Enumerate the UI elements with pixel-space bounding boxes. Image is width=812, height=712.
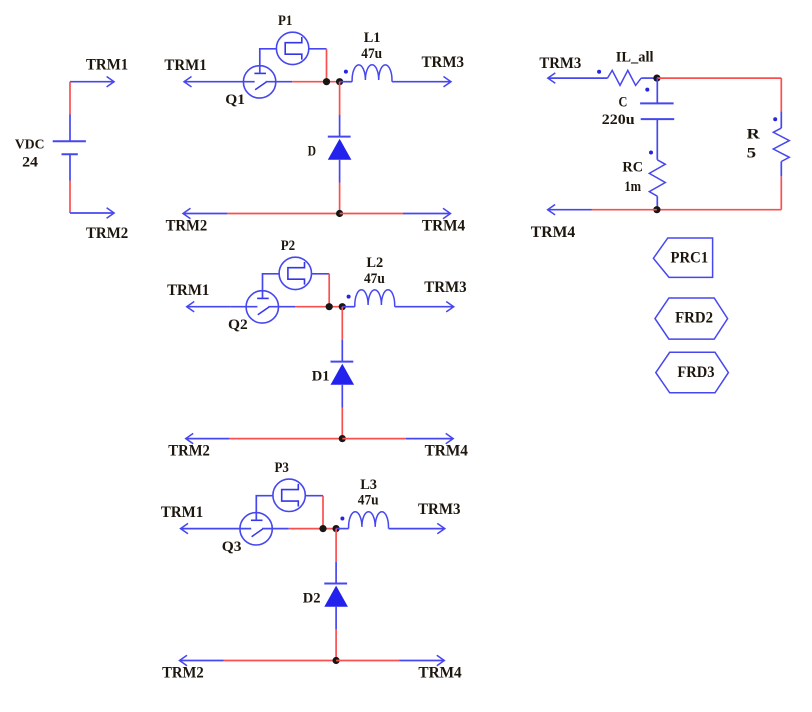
- inductor L1 coils: [352, 65, 392, 82]
- diode D1 lead top: [341, 340, 343, 362]
- wire bottom rail right cell1: [340, 213, 403, 215]
- terminal TRM4 arrow (output): [548, 209, 592, 211]
- svg-text:L2: L2: [366, 255, 383, 271]
- inductor L3 marker dot: [340, 517, 344, 521]
- terminal TRM3 arrow cell1: [392, 81, 451, 83]
- wire node to diode D2: [335, 529, 337, 562]
- wire VDC+ to TRM1: [69, 82, 71, 115]
- resistor R lead bottom: [780, 162, 782, 177]
- svg-text:TRM4: TRM4: [418, 665, 461, 682]
- wire P1 down to node: [326, 49, 328, 82]
- svg-text:TRM4: TRM4: [425, 443, 468, 460]
- junction node A cell2: [326, 303, 333, 310]
- svg-text:47u: 47u: [358, 493, 379, 509]
- junction node bottom (output): [653, 206, 660, 213]
- gating block P3 right lead: [305, 495, 323, 497]
- diode D lead top: [339, 115, 341, 137]
- resistor RC lead bottom: [656, 196, 658, 210]
- svg-text:FRD2: FRD2: [675, 310, 713, 327]
- inductor L3 coils: [349, 512, 389, 529]
- switch Q1 blade: [255, 82, 266, 90]
- svg-text:24: 24: [22, 155, 39, 171]
- terminal TRM3 arrow cell2: [395, 306, 454, 308]
- svg-text:TRM4: TRM4: [422, 218, 465, 235]
- wire P3 down to node: [322, 496, 324, 529]
- gating block P2 circle: [279, 257, 311, 289]
- svg-text:Q2: Q2: [228, 317, 248, 333]
- wire bottom rail right cell3: [336, 660, 399, 662]
- diode D lead bottom: [339, 160, 341, 183]
- wire bottom rail left cell1: [227, 213, 340, 215]
- resistor RC zigzag: [649, 160, 665, 196]
- svg-text:47u: 47u: [361, 46, 382, 62]
- terminal TRM1 arrow cell1: [184, 81, 228, 83]
- svg-text:TRM3: TRM3: [422, 54, 465, 71]
- resistor R lead top: [780, 111, 782, 128]
- diode D1 cathode bar: [331, 361, 354, 363]
- svg-text:Q3: Q3: [222, 539, 242, 555]
- block FRD3 outline: [656, 352, 729, 393]
- resistor R marker dot: [773, 117, 777, 121]
- wire node to diode D: [339, 82, 341, 115]
- svg-text:220u: 220u: [602, 112, 635, 128]
- wire bottom rail (output): [657, 209, 781, 211]
- switch Q2 right lead: [268, 306, 295, 308]
- junction node B cell1: [336, 78, 343, 85]
- capacitor C plate bottom: [641, 118, 675, 120]
- wire TRM1 to switch Q3: [225, 528, 252, 530]
- svg-text:1m: 1m: [624, 179, 641, 195]
- svg-text:FRD3: FRD3: [677, 364, 714, 381]
- svg-text:TRM3: TRM3: [418, 501, 461, 518]
- svg-text:L3: L3: [360, 477, 377, 493]
- wire bottom rail to TRM4 (output): [592, 209, 657, 211]
- voltage source VDC plate-: [62, 153, 78, 155]
- switch Q1 gate bar: [254, 72, 266, 74]
- wire gate Q3 to P3: [256, 496, 273, 521]
- diode D triangle: [328, 139, 352, 160]
- wire diode D to bottom rail: [339, 183, 341, 214]
- wire C to RC: [656, 119, 658, 160]
- wire TRM1 to switch Q2: [231, 306, 258, 308]
- wire TRM1 to switch Q1: [228, 81, 255, 83]
- junction node B cell2: [339, 303, 346, 310]
- gating block P1 waveform: [285, 37, 302, 60]
- sensor IL_all zigzag: [608, 70, 642, 85]
- voltage source VDC lead top: [69, 115, 71, 142]
- capacitor C marker dot: [645, 88, 649, 92]
- inductor L1 marker dot: [344, 70, 348, 74]
- switch Q1 right lead: [266, 81, 293, 83]
- wire bottom rail left cell2: [230, 438, 343, 440]
- terminal TRM1 arrow cell3: [181, 528, 225, 530]
- junction node top (output): [653, 75, 660, 82]
- block PRC1 outline: [653, 238, 712, 277]
- gating block P3 circle: [273, 479, 305, 511]
- switch Q2 blade: [258, 307, 269, 315]
- terminal TRM2 arrow cell1: [183, 213, 227, 215]
- terminal TRM2 arrow cell3: [180, 660, 224, 662]
- wire diode D2 to bottom rail: [335, 629, 337, 660]
- resistor R zigzag: [773, 128, 789, 161]
- svg-text:47u: 47u: [364, 271, 385, 287]
- junction node A cell3: [319, 525, 326, 532]
- terminal TRM4 arrow cell2: [406, 438, 454, 440]
- svg-text:TRM3: TRM3: [539, 55, 581, 72]
- inductor L1 lead left: [340, 81, 353, 83]
- terminal TRM1 arrow cell2: [187, 306, 231, 308]
- resistor RC marker dot: [649, 151, 653, 155]
- switch Q3 blade: [252, 529, 263, 537]
- svg-text:TRM3: TRM3: [424, 279, 467, 296]
- wire VDC- to TRM2: [69, 181, 71, 214]
- svg-text:TRM2: TRM2: [162, 665, 204, 682]
- diode D2 triangle: [324, 586, 348, 607]
- terminal TRM3 arrow (output): [548, 77, 608, 79]
- terminal TRM1 arrow (VDC): [70, 81, 114, 83]
- svg-text:TRM1: TRM1: [167, 282, 209, 299]
- svg-text:VDC: VDC: [15, 137, 45, 152]
- wire diode D1 to bottom rail: [341, 408, 343, 439]
- svg-text:P2: P2: [281, 238, 295, 254]
- switch Q2 gate bar: [257, 297, 269, 299]
- diode D2 cathode bar: [324, 583, 347, 585]
- wire bottom rail right cell2: [342, 438, 405, 440]
- junction node C cell1: [336, 210, 343, 217]
- diode D1 triangle: [331, 364, 355, 385]
- svg-text:TRM4: TRM4: [531, 224, 575, 241]
- wire switch node: [289, 528, 336, 530]
- wire IL_all to node: [641, 77, 657, 79]
- svg-text:5: 5: [747, 146, 757, 162]
- voltage source VDC plate+: [53, 140, 86, 142]
- junction node C cell2: [339, 435, 346, 442]
- svg-text:D2: D2: [303, 590, 321, 606]
- diode D2 lead bottom: [335, 607, 337, 630]
- wire gate Q2 to P2: [263, 274, 280, 299]
- wire switch node: [295, 306, 342, 308]
- gating block P3 waveform: [282, 484, 299, 507]
- svg-text:TRM2: TRM2: [168, 443, 210, 460]
- svg-text:R: R: [747, 126, 760, 142]
- svg-text:D: D: [308, 143, 317, 159]
- wire top rail (output): [657, 77, 781, 79]
- switch Q2 circle: [246, 291, 278, 323]
- capacitor C plate top: [640, 102, 674, 104]
- inductor L3 lead left: [336, 528, 349, 530]
- wire bottom rail left cell3: [224, 660, 337, 662]
- wire R to bottom rail: [780, 176, 782, 209]
- diode D2 lead top: [335, 562, 337, 584]
- sensor IL_all marker dot: [597, 70, 601, 74]
- terminal TRM4 arrow cell3: [400, 660, 445, 662]
- svg-text:RC: RC: [622, 159, 643, 175]
- svg-text:PRC1: PRC1: [671, 249, 709, 266]
- svg-text:IL_all: IL_all: [616, 50, 654, 66]
- switch Q3 circle: [240, 513, 272, 545]
- gating block P2 right lead: [312, 273, 330, 275]
- terminal TRM4 arrow cell1: [403, 213, 451, 215]
- svg-text:TRM2: TRM2: [86, 225, 128, 242]
- switch Q3 right lead: [262, 528, 289, 530]
- terminal TRM3 arrow cell3: [389, 528, 445, 530]
- svg-text:TRM1: TRM1: [164, 57, 206, 74]
- block FRD2 outline: [655, 298, 728, 339]
- junction node B cell3: [333, 525, 340, 532]
- terminal TRM2 arrow cell2: [186, 438, 230, 440]
- terminal TRM2 arrow (VDC): [70, 212, 114, 214]
- wire right drop to R: [780, 78, 782, 111]
- diode D1 lead bottom: [341, 385, 343, 408]
- gating block P1 right lead: [309, 48, 327, 50]
- gating block P1 circle: [276, 32, 308, 64]
- switch Q3 gate bar: [251, 519, 263, 521]
- junction node A cell1: [323, 78, 330, 85]
- wire node to diode D1: [341, 307, 343, 340]
- svg-text:D1: D1: [312, 368, 330, 384]
- svg-text:C: C: [619, 95, 628, 111]
- inductor L2 coils: [355, 290, 395, 307]
- svg-text:TRM2: TRM2: [166, 218, 208, 235]
- gating block P2 waveform: [288, 262, 305, 285]
- svg-text:L1: L1: [364, 30, 381, 46]
- inductor L2 marker dot: [347, 295, 351, 299]
- svg-text:Q1: Q1: [225, 92, 245, 108]
- inductor L2 lead left: [342, 306, 355, 308]
- junction node C cell3: [333, 657, 340, 664]
- voltage source VDC lead bottom: [69, 154, 71, 180]
- switch Q1 circle: [243, 66, 275, 98]
- wire P2 down to node: [328, 274, 330, 307]
- wire node to capacitor C: [656, 78, 658, 103]
- svg-text:TRM1: TRM1: [161, 504, 203, 521]
- svg-text:TRM1: TRM1: [86, 57, 128, 74]
- wire gate Q1 to P1: [260, 49, 277, 74]
- svg-text:P3: P3: [275, 460, 289, 476]
- diode D cathode bar: [328, 136, 351, 138]
- wire switch node: [292, 81, 339, 83]
- svg-text:P1: P1: [278, 13, 292, 29]
